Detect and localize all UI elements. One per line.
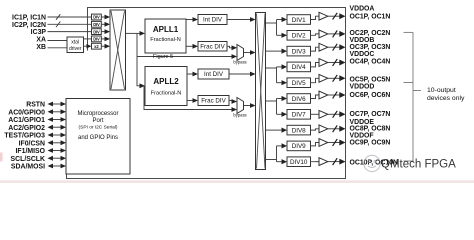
wire AC1/GPIO1 bidirectional: [52, 119, 61, 121]
wire SDA/MOSI bidirectional: [52, 165, 61, 167]
svg-text:devices only: devices only: [427, 95, 465, 102]
output buffer 3: [311, 47, 320, 51]
wire output OC1: [328, 15, 340, 17]
xtal driver: [67, 37, 84, 53]
wire AC2/GPIO2 bidirectional: [52, 126, 61, 128]
svg-text:DIV10: DIV10: [290, 159, 308, 166]
wire branch down to APLL2: [137, 33, 140, 85]
svg-text:SDA/MOSI: SDA/MOSI: [11, 164, 45, 171]
svg-text:VDDOC: VDDOC: [350, 51, 375, 58]
output buffer 10: [311, 161, 320, 163]
wire IF0/CSN bidirectional: [52, 142, 61, 144]
svg-text:RSTN: RSTN: [26, 102, 45, 109]
output divider DIV4: [287, 62, 311, 72]
svg-text:OC7P, OC7N: OC7P, OC7N: [350, 111, 391, 118]
wire output mux branch DIV4/DIV5: [266, 67, 277, 69]
wire output OC5: [328, 77, 340, 79]
wire output mux to DIV8: [266, 129, 282, 131]
svg-text:10-output: 10-output: [427, 87, 456, 94]
wire Int DIV1 to output mux: [227, 19, 250, 21]
svg-text:OC6P, OC6N: OC6P, OC6N: [350, 92, 391, 99]
svg-text:DIV5: DIV5: [292, 80, 306, 87]
bypass mux B2: [237, 98, 244, 114]
svg-text:DIV6: DIV6: [292, 96, 306, 103]
APLL1: [145, 19, 186, 53]
svg-text:VDDOF: VDDOF: [350, 133, 374, 140]
svg-text:(SPI or I2C Serial): (SPI or I2C Serial): [79, 125, 118, 131]
svg-text:APLL2: APLL2: [153, 77, 179, 86]
svg-text:OC5P, OC5N: OC5P, OC5N: [350, 76, 391, 83]
wire DIV2 to input mux: [101, 23, 104, 25]
wire DIV1 to input mux: [101, 16, 104, 18]
svg-text:AC1/GPIO1: AC1/GPIO1: [8, 117, 45, 124]
svg-text:DIV: DIV: [93, 22, 100, 27]
svg-text:TEST/GPIO3: TEST/GPIO3: [4, 133, 45, 140]
svg-text:IF0/CSN: IF0/CSN: [19, 140, 45, 147]
wire Frac DIV1 to bypass mux: [227, 46, 232, 48]
watermark logo circle: [364, 155, 380, 171]
divider Int DIV (APLL2): [187, 73, 193, 75]
svg-text:SCL/SCLK: SCL/SCLK: [11, 156, 45, 163]
svg-text:DIV9: DIV9: [292, 143, 306, 150]
wire bypass path 1: [137, 56, 232, 58]
wire DIV3 to input mux: [101, 31, 104, 33]
output divider DIV8: [287, 125, 311, 135]
svg-text:and GPIO Pins: and GPIO Pins: [78, 135, 118, 141]
svg-text:QMtech FPGA: QMtech FPGA: [381, 159, 456, 171]
svg-text:Fractional-N: Fractional-N: [150, 37, 180, 43]
output buffer 5: [311, 78, 320, 82]
x2 multiplier: [92, 43, 102, 49]
wire output OC9: [328, 142, 340, 144]
wire AC0/GPIO0 bidirectional: [52, 111, 61, 113]
svg-text:DIV: DIV: [93, 29, 100, 34]
wire TEST/GPIO3 bidirectional: [52, 134, 61, 136]
output crosspoint mux M2: [256, 13, 266, 170]
input divider DIV3: [92, 29, 102, 35]
svg-text:OC8P, OC8N: OC8P, OC8N: [350, 126, 391, 133]
wire output mux branch DIV9/DIV10: [266, 159, 277, 161]
svg-text:VDDOD: VDDOD: [350, 83, 375, 90]
svg-text:OC3P, OC3N: OC3P, OC3N: [350, 44, 391, 51]
svg-text:APLL1: APLL1: [153, 25, 179, 34]
bypass mux B1: [237, 45, 244, 61]
wire bypass mux B1 to output mux: [244, 52, 251, 54]
wire output OC2: [328, 33, 340, 35]
microprocessor port: [66, 99, 130, 175]
output divider DIV10: [287, 157, 311, 167]
wire xtal to DIV4: [84, 38, 92, 40]
output buffer 2: [311, 34, 320, 35]
svg-text:Int DIV: Int DIV: [204, 71, 224, 78]
svg-text:IF1/MISO: IF1/MISO: [16, 148, 46, 155]
svg-text:Microprocessor: Microprocessor: [77, 111, 118, 117]
output divider DIV2: [287, 31, 311, 41]
wire output OC7: [328, 113, 340, 115]
bus slash IC1: [56, 14, 60, 20]
wire DIV4 to input mux: [101, 38, 104, 40]
wire xtal to x2 with arrow: [84, 45, 88, 47]
wire IC3P input: [48, 31, 92, 33]
APLL2: [145, 67, 187, 106]
svg-text:Frac DIV: Frac DIV: [200, 44, 225, 51]
output buffer 1: [311, 16, 320, 19]
output divider DIV9: [287, 141, 311, 151]
wire output OC4: [328, 62, 340, 64]
svg-text:IC3P: IC3P: [31, 29, 47, 36]
wire output mux branch DIV6/DIV7: [266, 100, 277, 102]
input crosspoint mux M1: [110, 10, 126, 90]
chip boundary: [67, 8, 346, 179]
svg-text:DIV: DIV: [93, 37, 100, 42]
divider Frac DIV (APLL2): [187, 100, 193, 102]
svg-text:x2: x2: [94, 44, 99, 49]
output divider DIV5: [287, 78, 311, 88]
svg-text:DIV2: DIV2: [292, 33, 306, 40]
output buffer 9: [311, 143, 320, 146]
svg-text:IC1P, IC1N: IC1P, IC1N: [12, 15, 46, 22]
divider Frac DIV (APLL1): [186, 45, 193, 47]
wire IC1P/IC1N input: [48, 16, 92, 18]
svg-text:DIV7: DIV7: [292, 112, 306, 119]
svg-text:Fractional-N: Fractional-N: [151, 91, 181, 97]
wire SCL/SCLK bidirectional: [52, 157, 61, 159]
divider Int DIV (APLL1): [186, 19, 193, 21]
wire output OC6: [328, 94, 340, 96]
svg-text:AC2/GPIO2: AC2/GPIO2: [8, 125, 45, 132]
wire XB input: [48, 47, 68, 49]
svg-text:Port: Port: [92, 118, 103, 124]
input divider DIV4: [92, 36, 102, 42]
wire Frac DIV2 to bypass mux: [229, 100, 232, 102]
svg-text:IC2P, IC2N: IC2P, IC2N: [12, 22, 46, 29]
output buffer 6: [311, 95, 320, 99]
svg-text:driver: driver: [69, 46, 82, 52]
wire IF1/MISO bidirectional: [52, 150, 61, 152]
wire output mux branch DIV1/DIV2: [266, 22, 277, 24]
svg-text:DIV1: DIV1: [292, 17, 306, 24]
wire output OC8: [328, 128, 340, 130]
output buffer 4: [311, 63, 320, 67]
input divider DIV2: [92, 21, 102, 27]
output divider DIV1: [287, 15, 311, 25]
bus slash IC2: [56, 22, 60, 28]
svg-text:OC4P, OC4N: OC4P, OC4N: [350, 58, 391, 65]
svg-text:OC2P, OC2N: OC2P, OC2N: [350, 30, 391, 37]
wire IC2P/IC2N input: [48, 23, 92, 25]
output buffer 8: [311, 129, 320, 130]
svg-text:DIV4: DIV4: [292, 64, 306, 71]
svg-text:DIV: DIV: [93, 15, 100, 20]
svg-text:DIV3: DIV3: [292, 48, 306, 55]
wire output OC3: [328, 46, 340, 48]
output buffer 7: [311, 113, 320, 115]
input divider DIV1: [92, 14, 102, 20]
svg-text:DIV8: DIV8: [292, 127, 306, 134]
wire Int DIV2 to output mux: [229, 73, 250, 75]
svg-text:AC0/GPIO0: AC0/GPIO0: [8, 109, 45, 116]
svg-text:VDDOA: VDDOA: [350, 5, 375, 12]
svg-text:VDDOB: VDDOB: [350, 37, 375, 44]
bracket 10-output devices: [404, 32, 422, 161]
svg-text:Frac DIV: Frac DIV: [201, 98, 226, 105]
wire x2 to input mux: [101, 45, 104, 47]
wire XA input: [48, 40, 68, 42]
svg-text:XB: XB: [36, 44, 46, 51]
wire RSTN bidirectional: [52, 103, 61, 105]
wire mux M1 to APLL1: [126, 32, 141, 34]
svg-text:bypass: bypass: [233, 60, 246, 65]
wire output mux to DIV3: [266, 50, 282, 52]
svg-text:Figure 5: Figure 5: [153, 54, 173, 60]
svg-text:OC9P, OC9N: OC9P, OC9N: [350, 140, 391, 147]
output divider DIV3: [287, 46, 311, 56]
svg-text:OC1P, OC1N: OC1P, OC1N: [350, 13, 391, 20]
output divider DIV6: [287, 94, 311, 104]
svg-text:XA: XA: [36, 37, 46, 44]
svg-text:Int DIV: Int DIV: [203, 17, 223, 24]
output divider DIV7: [287, 110, 311, 120]
wire bypass path 2: [144, 86, 232, 110]
wire bypass mux B2 to output mux: [244, 105, 251, 107]
wire output OC10: [328, 161, 340, 163]
watermark pink bottom band: [0, 180, 474, 183]
svg-text:xtal: xtal: [71, 40, 79, 46]
svg-text:bypass: bypass: [233, 113, 246, 118]
watermark pink left: [0, 153, 3, 162]
